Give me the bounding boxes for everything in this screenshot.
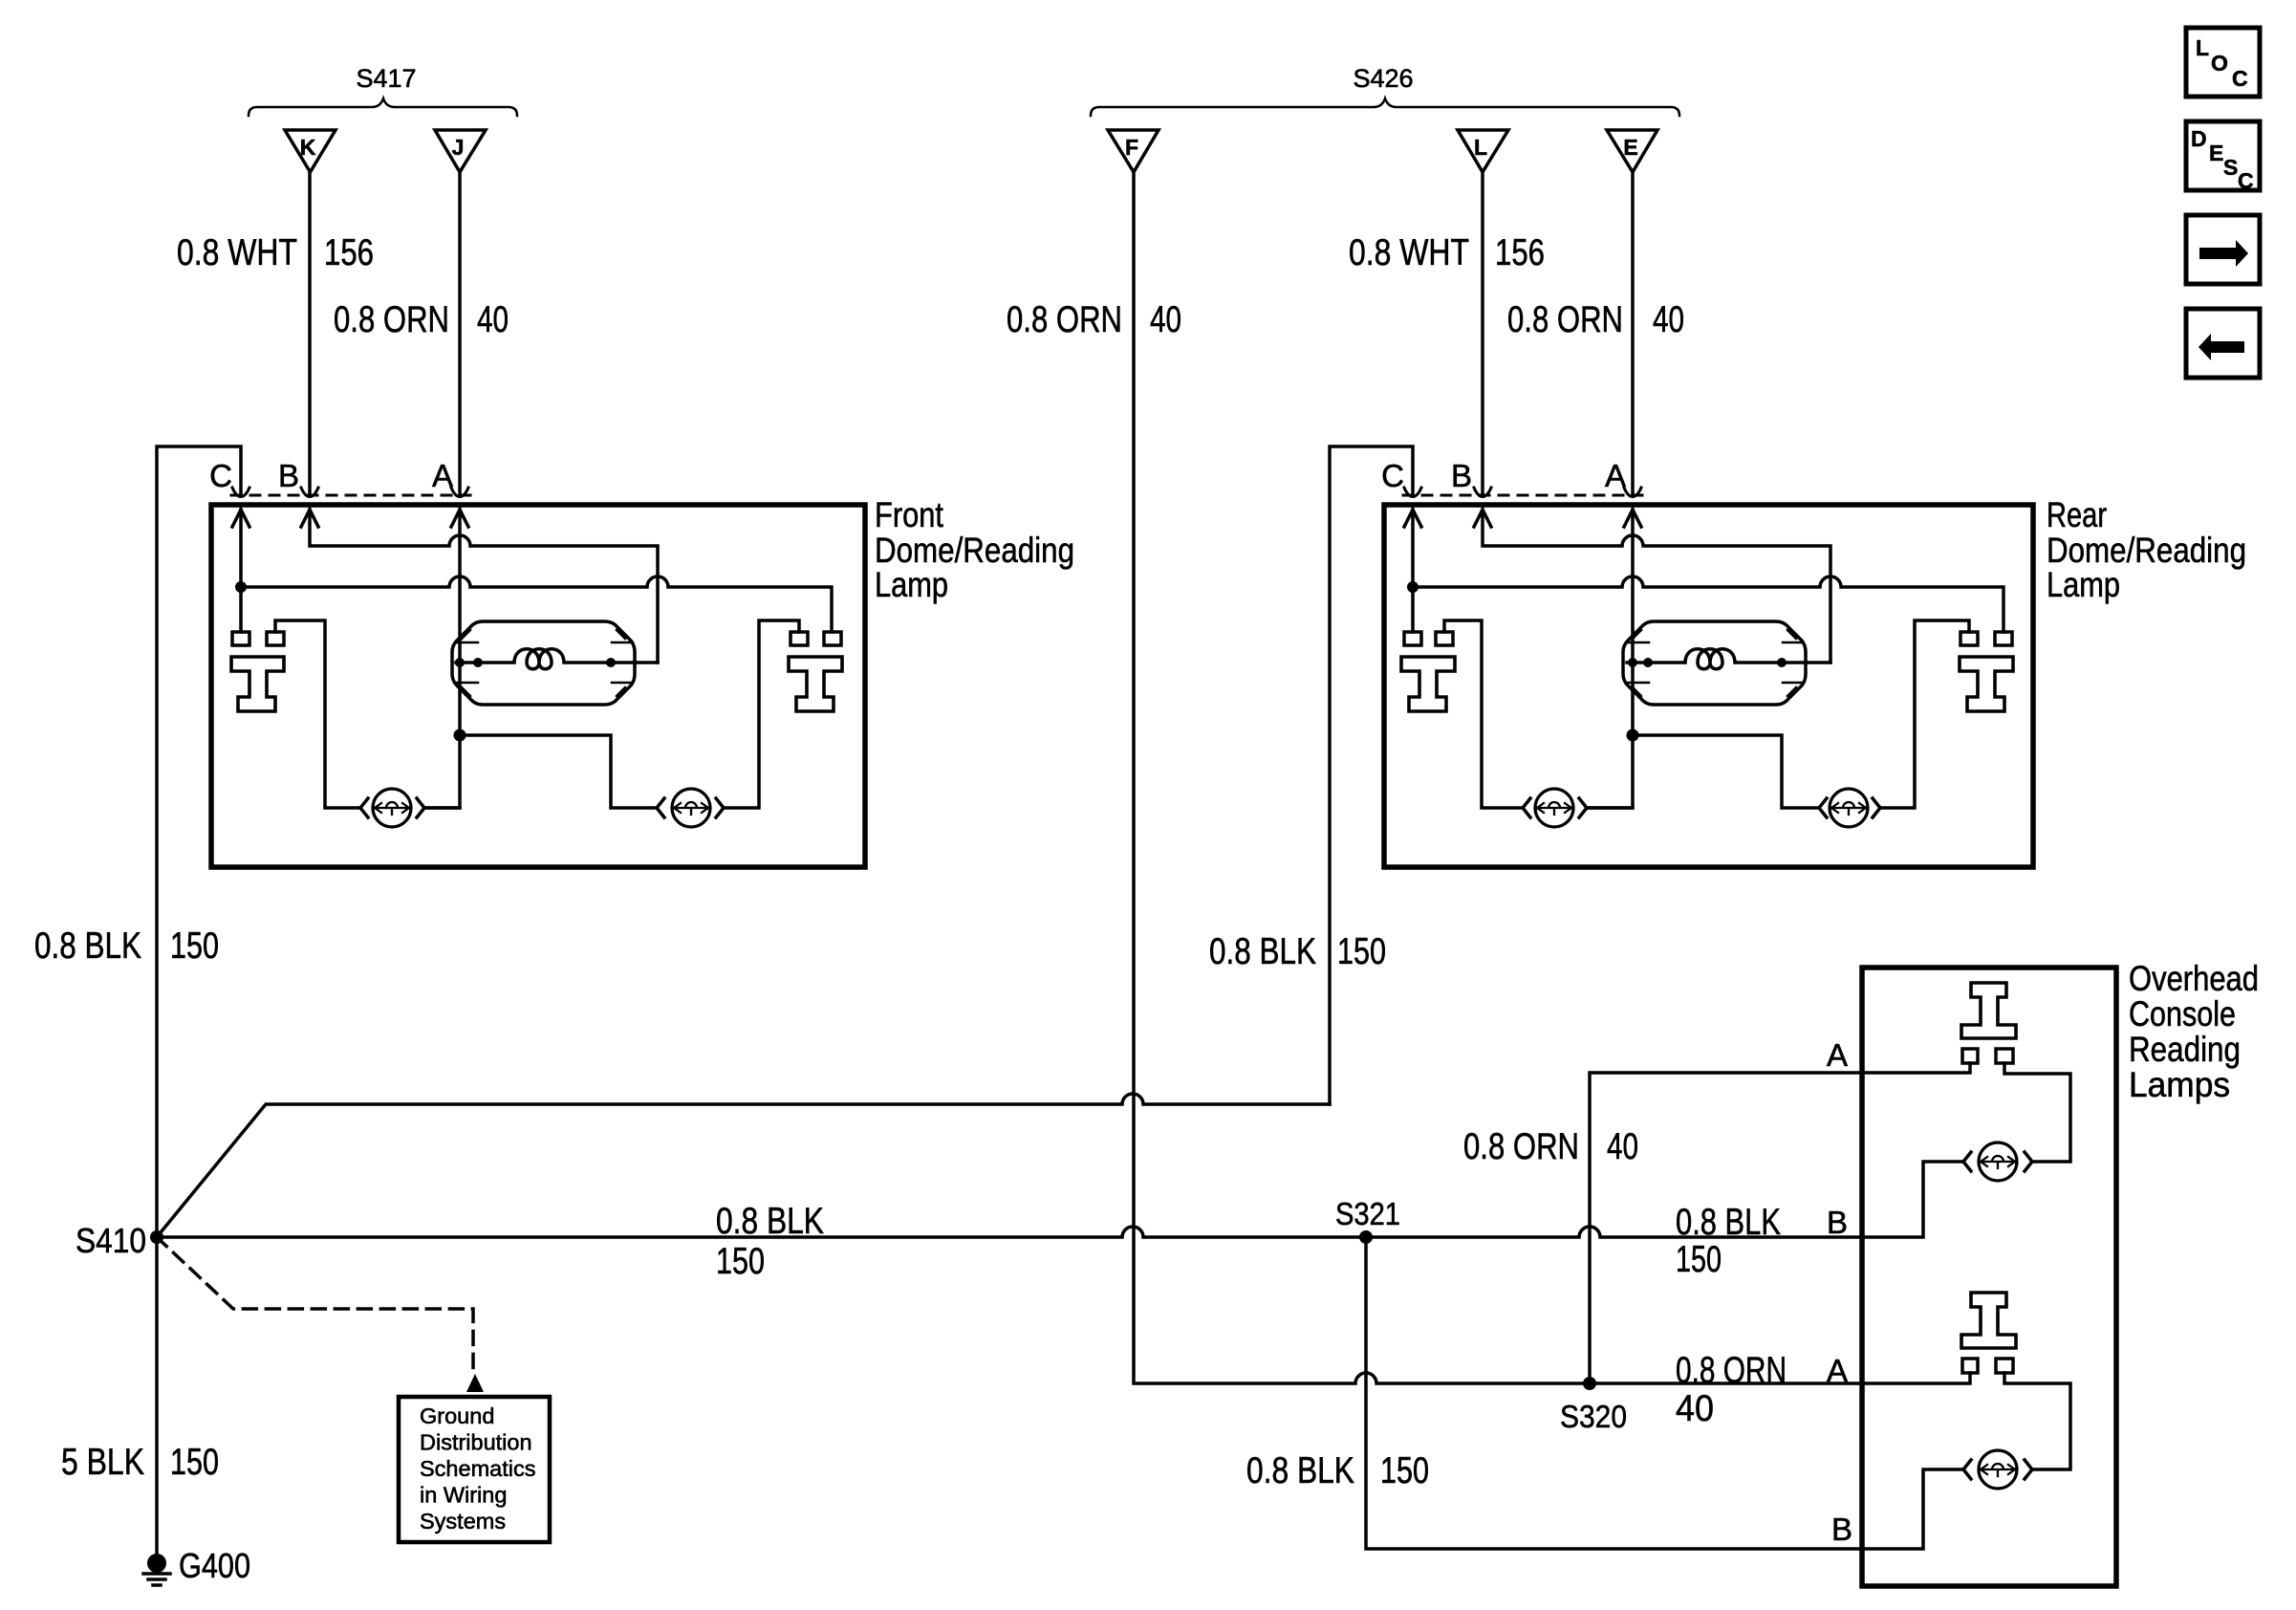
svg-text:156: 156 bbox=[324, 232, 374, 273]
svg-text:O: O bbox=[2211, 51, 2228, 76]
pin cavity A (rear) bbox=[1624, 488, 1641, 497]
svg-text:Dome/Reading: Dome/Reading bbox=[2047, 531, 2246, 570]
wire rear C to right switch (hops over A and B wires) bbox=[1413, 577, 2004, 632]
junction filament left terminal (front) bbox=[473, 658, 483, 667]
front dome/reading lamp box bbox=[211, 505, 865, 867]
wire front left switch to left reading lamp bbox=[275, 620, 360, 808]
svg-text:C: C bbox=[209, 458, 232, 493]
icon box DESC bbox=[2186, 121, 2260, 193]
wire overhead bottom switch to bottom reading lamp bbox=[2004, 1373, 2070, 1469]
front dome lamp bulb outline bbox=[452, 621, 635, 705]
front left switch terminals bbox=[232, 632, 249, 645]
rear dome/reading lamp box bbox=[1384, 505, 2033, 867]
front left switch slider bbox=[231, 657, 284, 711]
svg-text:Console: Console bbox=[2129, 994, 2236, 1033]
label 0.8 ORN 40 bbox=[334, 299, 509, 340]
wire rear C stem to left switch bbox=[1411, 587, 1415, 632]
svg-text:150: 150 bbox=[170, 1442, 219, 1483]
svg-text:Dome/Reading: Dome/Reading bbox=[875, 531, 1074, 570]
svg-text:156: 156 bbox=[1495, 232, 1545, 273]
junction filament right terminal (rear) bbox=[1777, 658, 1787, 667]
svg-text:Reading: Reading bbox=[2129, 1030, 2241, 1069]
connector dashed line (front) bbox=[231, 494, 478, 497]
svg-text:Lamp: Lamp bbox=[2047, 565, 2120, 604]
svg-text:F: F bbox=[1125, 135, 1138, 160]
svg-text:0.8 BLK: 0.8 BLK bbox=[716, 1201, 824, 1242]
rear dome lamp base brackets bbox=[1627, 642, 1803, 683]
pin arrow A (front) bbox=[451, 510, 468, 527]
ground G400 bbox=[143, 1554, 170, 1585]
svg-text:G400: G400 bbox=[179, 1546, 250, 1585]
label 0.8 BLK 150 (rear riser) bbox=[1209, 931, 1386, 972]
ground distribution note text bbox=[420, 1403, 535, 1534]
icon box LOC bbox=[2186, 28, 2260, 97]
svg-text:Lamps: Lamps bbox=[2129, 1065, 2230, 1104]
label 0.8 ORN 40 (S320 riser) bbox=[1463, 1126, 1638, 1167]
wire rear ground riser to rear pin C (0.8 BLK 150) bbox=[1330, 446, 1413, 1104]
wire C to right switch (hops over A and B wires) bbox=[241, 577, 832, 632]
svg-text:Distribution: Distribution bbox=[420, 1430, 532, 1455]
label Rear Dome/Reading Lamp bbox=[2047, 495, 2246, 604]
svg-text:40: 40 bbox=[477, 299, 509, 340]
rear right reading lamp bbox=[1819, 789, 1880, 827]
connector E bbox=[1607, 130, 1657, 172]
svg-text:150: 150 bbox=[1337, 931, 1386, 972]
svg-text:D: D bbox=[2191, 126, 2207, 151]
svg-text:150: 150 bbox=[170, 925, 219, 967]
wire rear pin C stem to junction bbox=[1411, 510, 1415, 587]
reference arrowhead bbox=[466, 1374, 484, 1392]
svg-text:K: K bbox=[300, 135, 316, 160]
svg-text:Ground: Ground bbox=[420, 1403, 494, 1428]
label 0.8 BLK over 150 (pin B top) bbox=[1676, 1202, 1781, 1280]
pin cavity C (rear) bbox=[1404, 488, 1421, 497]
svg-text:0.8 ORN: 0.8 ORN bbox=[334, 299, 449, 340]
svg-text:40: 40 bbox=[1607, 1126, 1638, 1167]
svg-text:0.8 WHT: 0.8 WHT bbox=[177, 232, 297, 273]
wire front right switch to right reading lamp bbox=[725, 620, 799, 808]
pin cavity C (front) bbox=[232, 488, 249, 497]
svg-text:Overhead: Overhead bbox=[2129, 959, 2259, 998]
label 0.8 WHT 156 (L wire) bbox=[1349, 232, 1545, 273]
wire S410 to rear riser (hop over F wire) bbox=[157, 1094, 1330, 1237]
svg-text:S: S bbox=[2223, 155, 2238, 180]
wire pin B to lamp right (hop over A) bbox=[310, 510, 658, 663]
svg-text:40: 40 bbox=[1653, 299, 1684, 340]
svg-text:0.8 ORN: 0.8 ORN bbox=[1507, 299, 1623, 340]
pin letters C B A (rear) bbox=[1381, 458, 1626, 493]
label 0.8 ORN 40 (E wire) bbox=[1507, 299, 1684, 340]
junction A lower (rear) bbox=[1627, 729, 1639, 742]
pin cavity B (front) bbox=[301, 488, 318, 497]
svg-text:C: C bbox=[2238, 168, 2254, 193]
svg-text:S410: S410 bbox=[76, 1221, 146, 1260]
dashed reference wire S410 to ground distribution note bbox=[157, 1237, 473, 1375]
front dome lamp base brackets bbox=[456, 642, 632, 683]
svg-text:0.8 WHT: 0.8 WHT bbox=[1349, 232, 1469, 273]
svg-text:A: A bbox=[1827, 1353, 1848, 1388]
rear left switch slider bbox=[1401, 657, 1455, 711]
label 0.8 WHT 156 bbox=[177, 232, 374, 273]
front dome lamp filament and coil bbox=[456, 649, 658, 669]
front left reading lamp bbox=[360, 789, 424, 827]
wire overhead top switch to top reading lamp bbox=[2004, 1063, 2070, 1162]
ground distribution note box bbox=[399, 1397, 550, 1542]
svg-text:150: 150 bbox=[716, 1241, 765, 1282]
svg-text:A: A bbox=[1605, 458, 1626, 493]
svg-text:B: B bbox=[1831, 1512, 1852, 1547]
svg-text:0.8 BLK: 0.8 BLK bbox=[1209, 931, 1316, 972]
rear dome lamp filament and coil bbox=[1627, 649, 1830, 669]
pin arrow B (front) bbox=[301, 510, 318, 527]
svg-text:0.8 BLK: 0.8 BLK bbox=[1246, 1450, 1354, 1491]
overhead top switch terminals bbox=[1962, 1049, 1978, 1063]
splice S410 bbox=[150, 1230, 163, 1244]
svg-text:0.8 ORN: 0.8 ORN bbox=[1007, 299, 1122, 340]
wire front left reading lamp to A bbox=[424, 806, 460, 810]
wire rear pin A down through lamp bbox=[1589, 510, 1633, 808]
svg-text:0.8 ORN: 0.8 ORN bbox=[1463, 1126, 1579, 1167]
label 0.8 ORN 40 (F wire) bbox=[1007, 299, 1181, 340]
front right switch slider bbox=[789, 657, 842, 711]
svg-text:0.8 BLK: 0.8 BLK bbox=[1676, 1202, 1781, 1243]
label Overhead Console Reading Lamps bbox=[2129, 959, 2259, 1104]
svg-text:0.8 BLK: 0.8 BLK bbox=[34, 925, 141, 967]
front right reading lamp bbox=[657, 789, 724, 827]
overhead top switch slider bbox=[1961, 983, 2016, 1038]
junction filament right terminal (front) bbox=[606, 658, 616, 667]
wire rear left reading lamp to A bbox=[1587, 806, 1633, 810]
svg-text:Lamp: Lamp bbox=[875, 565, 948, 604]
wire L to rear pin B (0.8 WHT 156) bbox=[1481, 172, 1484, 494]
rear dome lamp bulb outline bbox=[1623, 621, 1806, 705]
junction A lower (front) bbox=[454, 729, 466, 742]
svg-text:150: 150 bbox=[1380, 1450, 1429, 1491]
pin arrow A (rear) bbox=[1624, 510, 1641, 527]
pin arrow C (rear) bbox=[1404, 510, 1421, 527]
splice S320 bbox=[1583, 1377, 1596, 1390]
pin arrow C (front) bbox=[232, 510, 249, 527]
rear dome lamp corner ticks bbox=[1633, 630, 1796, 696]
junction C (front) bbox=[235, 581, 247, 593]
overhead bottom reading lamp bbox=[1963, 1450, 2032, 1489]
icon box left arrow bbox=[2186, 309, 2260, 378]
label Front Dome/Reading Lamp bbox=[875, 495, 1074, 604]
wire C stem to left switch bbox=[239, 587, 243, 632]
rear left switch terminals bbox=[1404, 632, 1421, 645]
junction filament left terminal (rear) bbox=[1643, 658, 1653, 667]
wire pin C stem to junction bbox=[239, 510, 243, 587]
svg-text:C: C bbox=[1381, 458, 1404, 493]
svg-text:S320: S320 bbox=[1560, 1399, 1627, 1434]
junction A-filament (rear) bbox=[1628, 658, 1637, 667]
wire S410 to S321 to overhead console pin B top (0.8 BLK 150, hops over F and ORN wires) bbox=[157, 1162, 1962, 1237]
front dome lamp corner ticks bbox=[462, 630, 625, 696]
label 0.8 ORN over 40 (pin A bottom) bbox=[1676, 1350, 1787, 1429]
svg-text:Rear: Rear bbox=[2047, 495, 2107, 534]
pin arrow B (rear) bbox=[1474, 510, 1491, 527]
connector K bbox=[285, 130, 336, 172]
label 0.8 BLK 150 (S321 drop) bbox=[1246, 1450, 1429, 1491]
svg-text:A: A bbox=[1827, 1037, 1848, 1073]
svg-text:B: B bbox=[278, 458, 299, 493]
connector L bbox=[1458, 130, 1508, 172]
svg-text:S321: S321 bbox=[1335, 1196, 1400, 1231]
pin cavity A (front) bbox=[451, 488, 468, 497]
wire A junction to right reading lamp bbox=[460, 735, 657, 808]
svg-text:B: B bbox=[1827, 1205, 1848, 1240]
svg-text:5 BLK: 5 BLK bbox=[61, 1442, 144, 1483]
connector F bbox=[1108, 130, 1159, 172]
pin letters C B A (front) bbox=[209, 458, 453, 493]
wire E to rear pin A (0.8 ORN 40) bbox=[1631, 172, 1635, 494]
svg-text:J: J bbox=[452, 135, 465, 160]
junction C (rear) bbox=[1407, 581, 1419, 593]
svg-text:40: 40 bbox=[1150, 299, 1181, 340]
svg-text:A: A bbox=[432, 458, 453, 493]
svg-text:E: E bbox=[2209, 141, 2223, 165]
connector dashed line (rear) bbox=[1403, 494, 1650, 497]
pin cavity B (rear) bbox=[1474, 488, 1491, 497]
wire J to pin A (0.8 ORN 40) bbox=[458, 172, 462, 494]
label 5 BLK 150 (ground wire) bbox=[61, 1442, 219, 1483]
label 0.8 BLK over 150 (S410-S321 wire) bbox=[716, 1201, 824, 1282]
icon box right arrow bbox=[2186, 215, 2260, 284]
wire rear pin B to lamp right (hop over A) bbox=[1483, 510, 1830, 663]
svg-text:in Wiring: in Wiring bbox=[420, 1483, 507, 1508]
wire S320 up to overhead console pin A top (0.8 ORN 40) bbox=[1590, 1063, 1970, 1383]
overhead top reading lamp bbox=[1963, 1142, 2032, 1181]
wire pin A down through lamp bbox=[425, 510, 460, 808]
wire S321 down to overhead console pin B bottom (0.8 BLK 150) bbox=[1366, 1237, 1962, 1549]
overhead console reading lamps box bbox=[1862, 968, 2116, 1586]
svg-text:L: L bbox=[1474, 135, 1487, 160]
overhead bottom switch slider bbox=[1961, 1293, 2016, 1348]
rear left reading lamp bbox=[1523, 789, 1587, 827]
svg-text:B: B bbox=[1451, 458, 1472, 493]
svg-text:C: C bbox=[2232, 66, 2248, 91]
wire rear A junction to right reading lamp bbox=[1633, 735, 1819, 808]
svg-text:S426: S426 bbox=[1353, 64, 1413, 93]
wire rear left switch to left reading lamp bbox=[1444, 620, 1523, 808]
wire rear right switch to right reading lamp bbox=[1880, 620, 1969, 808]
brace S426 bbox=[1091, 98, 1679, 116]
svg-text:E: E bbox=[1623, 135, 1637, 160]
svg-text:0.8 ORN: 0.8 ORN bbox=[1676, 1350, 1787, 1391]
svg-text:Front: Front bbox=[875, 495, 944, 534]
svg-text:150: 150 bbox=[1676, 1239, 1722, 1280]
wire S410 ground riser to front pin C bbox=[157, 446, 241, 1556]
front right switch terminals bbox=[791, 632, 808, 645]
wire K to pin B (0.8 WHT 156) bbox=[308, 172, 312, 494]
splice S321 bbox=[1359, 1230, 1373, 1244]
label 0.8 BLK 150 (front riser) bbox=[34, 925, 219, 967]
connector J bbox=[435, 130, 486, 172]
svg-text:Schematics: Schematics bbox=[420, 1456, 535, 1481]
rear right switch slider bbox=[1960, 657, 2013, 711]
rear right switch terminals bbox=[1960, 632, 1978, 645]
svg-text:L: L bbox=[2196, 35, 2209, 60]
svg-text:S417: S417 bbox=[356, 64, 416, 93]
svg-text:Systems: Systems bbox=[420, 1509, 506, 1534]
junction A-filament (front) bbox=[455, 658, 465, 667]
wire F down to S320 and overhead console pin A bottom (hop over S321 wire) bbox=[1134, 172, 1970, 1383]
overhead bottom switch terminals bbox=[1962, 1359, 1978, 1373]
brace S417 bbox=[249, 98, 517, 116]
svg-text:40: 40 bbox=[1676, 1388, 1714, 1429]
